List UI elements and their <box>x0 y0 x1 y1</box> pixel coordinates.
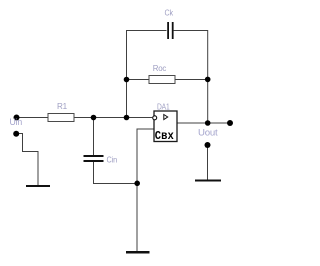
svg-text:Ck: Ck <box>165 8 174 18</box>
svg-text:Cвх: Cвх <box>155 129 174 143</box>
svg-text:R1: R1 <box>57 101 67 111</box>
svg-text:Roc: Roc <box>153 63 167 73</box>
svg-text:Cin: Cin <box>107 155 118 165</box>
svg-text:Uout: Uout <box>198 128 218 138</box>
svg-text:DA1: DA1 <box>157 102 170 112</box>
svg-text:Uin: Uin <box>10 117 23 127</box>
